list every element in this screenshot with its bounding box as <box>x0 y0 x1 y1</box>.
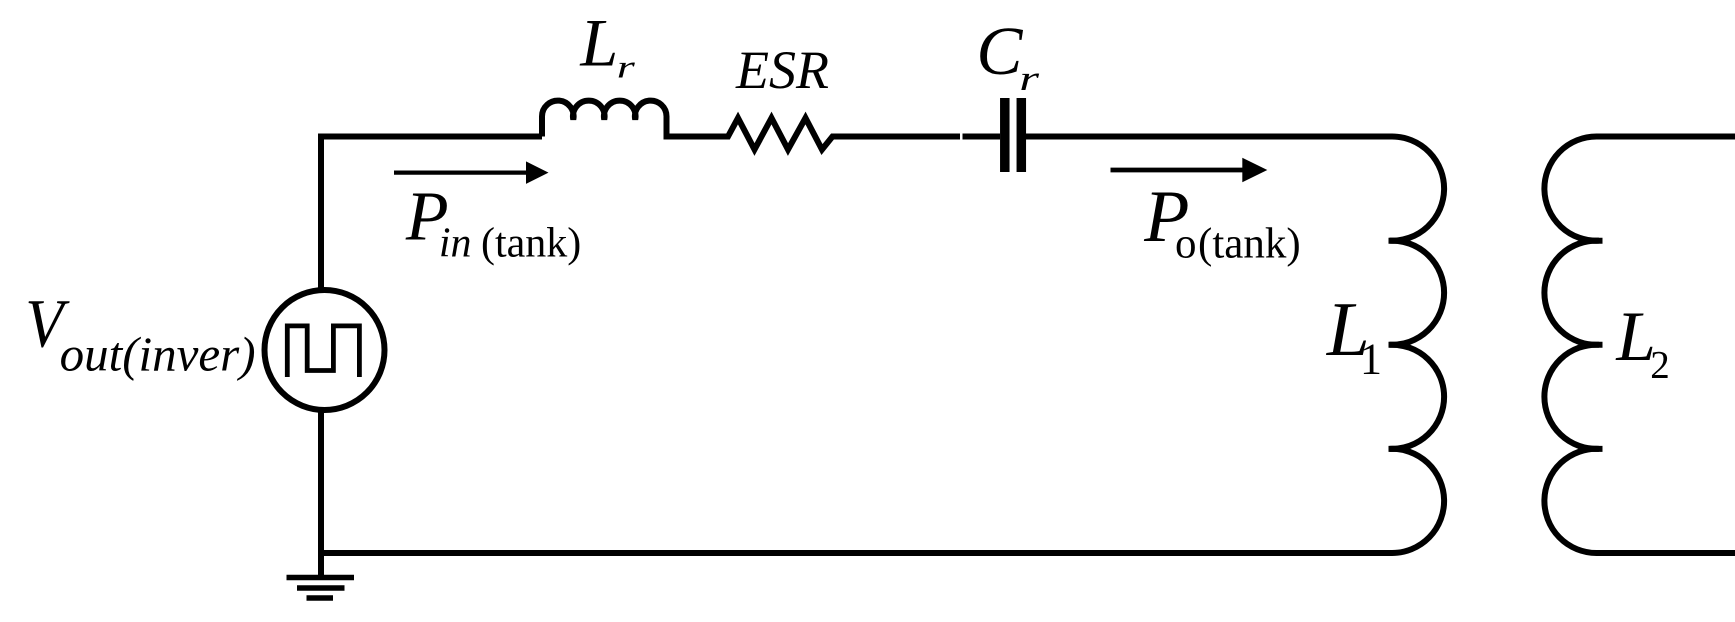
svg-text:(tank): (tank) <box>1198 221 1301 268</box>
svg-text:(tank): (tank) <box>481 221 581 267</box>
svg-text:C: C <box>976 13 1023 89</box>
svg-text:r: r <box>617 49 636 85</box>
svg-text:L: L <box>579 4 618 80</box>
svg-text:ESR: ESR <box>735 40 829 100</box>
svg-text:in: in <box>439 221 472 267</box>
svg-text:2: 2 <box>1650 344 1670 387</box>
svg-text:r: r <box>1019 59 1040 98</box>
svg-text:out(inver): out(inver) <box>60 327 256 382</box>
svg-text:o: o <box>1175 221 1197 268</box>
svg-text:1: 1 <box>1360 335 1382 384</box>
